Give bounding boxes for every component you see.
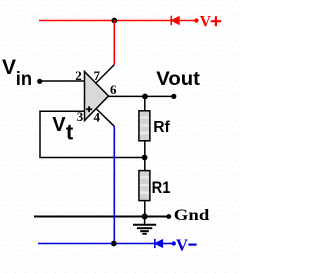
wire output node down to Rf	[144, 96, 146, 110]
op-amp plus sign	[86, 106, 92, 112]
resistor Rf	[139, 111, 150, 141]
terminal dot Gnd	[166, 214, 171, 219]
svg-text:V: V	[52, 114, 66, 136]
svg-text:2: 2	[75, 68, 82, 83]
svg-text:in: in	[16, 69, 32, 90]
ground symbol	[133, 217, 156, 234]
node feedback junction	[142, 155, 148, 161]
wire output pin 6 to Vout terminal	[109, 95, 175, 97]
svg-text:6: 6	[110, 82, 117, 97]
wire ground rail	[34, 216, 169, 218]
wire Vin to pin 2	[40, 80, 85, 82]
wire red vertical to pin 7	[113, 21, 115, 65]
node output junction	[142, 94, 148, 100]
node ground junction	[142, 214, 148, 220]
svg-text:t: t	[66, 120, 74, 145]
wire R1 to ground rail	[144, 201, 146, 217]
svg-text:4: 4	[94, 109, 101, 124]
svg-text:R1: R1	[152, 179, 171, 197]
svg-text:V: V	[176, 235, 188, 254]
svg-text:Vout: Vout	[156, 69, 200, 90]
wire V+ rail top	[39, 20, 196, 22]
op-amp U1 triangle	[85, 72, 109, 121]
wire blue vertical pin 4 to V- rail	[113, 126, 115, 244]
wire V- rail bottom	[38, 243, 155, 245]
node junction on V- rail	[111, 241, 117, 247]
svg-text:V: V	[2, 56, 16, 79]
terminal dot Vin	[37, 79, 42, 84]
svg-text:7: 7	[94, 68, 101, 83]
wire Rf to feedback node	[144, 141, 146, 171]
svg-text:Rf: Rf	[153, 119, 170, 136]
svg-text:V: V	[200, 13, 212, 30]
terminal dot Vout	[171, 94, 176, 99]
op-amp U1 pin 4 lead	[96, 109, 114, 127]
op-amp U1 pin 7 lead	[96, 65, 114, 83]
background dotted grid	[0, 0, 237, 273]
wire Vt loop: pin3 left, down, right to feedback node	[40, 111, 145, 157]
svg-text:Gnd: Gnd	[174, 207, 210, 224]
resistor R1	[139, 171, 150, 201]
terminal arrow V-	[155, 239, 176, 248]
node junction on V+ rail	[111, 18, 117, 24]
terminal arrow V+	[171, 16, 198, 25]
